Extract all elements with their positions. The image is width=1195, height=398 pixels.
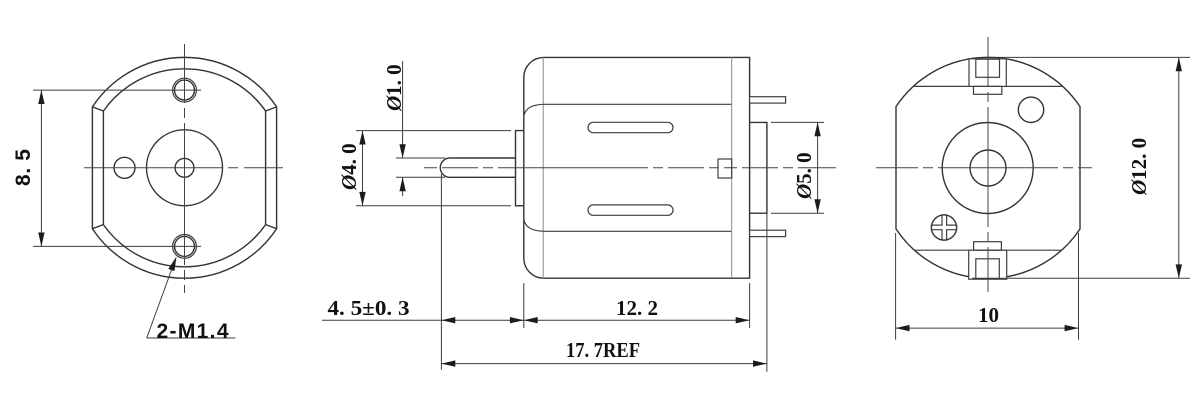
arrow 10 right	[1065, 325, 1079, 331]
arrow down 8.5	[38, 233, 44, 247]
screw head circle	[931, 215, 956, 240]
dim line 10	[896, 327, 1079, 329]
svg-text:10: 10	[978, 303, 999, 327]
arrow phi5.0 up	[814, 122, 820, 136]
inner shell top line	[524, 104, 732, 116]
inner shell bottom line	[524, 219, 732, 231]
vertical centerline	[184, 44, 186, 293]
chamfer edge top-left	[92, 107, 103, 111]
rear bearing circle	[970, 150, 1006, 186]
rear boss circle	[942, 123, 1033, 214]
extension line bottom hole	[33, 245, 201, 247]
arrow 4.5 left	[441, 317, 455, 323]
top terminal	[750, 97, 786, 103]
ext line shaft top	[396, 157, 445, 159]
bottom vent slot	[588, 205, 673, 215]
ext line endcap phi5 top	[771, 121, 824, 123]
dim line phi1.0 lower	[402, 177, 404, 196]
ext line boss bottom	[356, 205, 511, 207]
ext line endcap phi5 bottom	[771, 212, 824, 214]
arrow phi12 down	[1176, 264, 1182, 278]
chamfer edge bottom-right	[266, 225, 277, 229]
bottom tab inner	[976, 259, 1000, 279]
dim line phi12.0	[1178, 57, 1180, 278]
arrow 17.7 right	[753, 360, 767, 366]
svg-text:Ø5. 0: Ø5. 0	[792, 152, 816, 200]
svg-text:12. 2: 12. 2	[616, 296, 658, 320]
dimension line 8.5	[40, 90, 42, 246]
bearing boss	[516, 131, 524, 206]
bottom screw hole M1.4 thread	[173, 235, 197, 259]
front view outer can outline	[92, 57, 276, 278]
top vent slot	[588, 122, 673, 132]
inner back line	[731, 57, 733, 278]
svg-text:Ø4. 0: Ø4. 0	[337, 143, 361, 191]
oil hole tab	[718, 159, 732, 178]
horizontal centerline	[876, 167, 1092, 169]
arrow phi12 up	[1176, 57, 1182, 71]
ext line boss top	[356, 130, 511, 132]
crimp chord top	[913, 85, 1062, 87]
svg-text:Ø12. 0: Ø12. 0	[1127, 138, 1151, 196]
top tab bump	[974, 86, 1002, 94]
bottom screw hole M1.4 inner	[175, 236, 195, 256]
ext line 10 right	[1078, 233, 1080, 340]
bottom tab bump	[974, 242, 1002, 251]
rear endcap	[750, 122, 767, 213]
back view outer can outline	[896, 57, 1080, 278]
screw cross slot	[931, 215, 956, 240]
top screw hole M1.4 thread	[173, 78, 197, 102]
bottom tab outer	[969, 250, 1007, 279]
arrow 4.5 right	[510, 317, 524, 323]
ext line phi12 top	[993, 56, 1190, 58]
svg-text:8. 5: 8. 5	[12, 149, 35, 186]
vertical centerline	[987, 37, 989, 292]
shaft hole	[175, 158, 194, 177]
ext line phi12 bottom	[972, 277, 1190, 279]
front view inner rim outline	[103, 69, 265, 267]
dim line 4.5	[322, 319, 524, 321]
svg-text:Ø1. 0: Ø1. 0	[382, 64, 406, 112]
arrow 17.7 left	[441, 360, 455, 366]
arrow up 8.5	[38, 90, 44, 104]
arrow 12.2 left	[524, 317, 538, 323]
svg-text:4. 5±0. 3: 4. 5±0. 3	[328, 296, 410, 320]
arrow 12.2 right	[736, 317, 750, 323]
ext line 10 left	[895, 233, 897, 340]
arrow phi1.0 up	[399, 177, 405, 191]
vent hole top right	[1018, 97, 1043, 122]
ext line endcap back	[766, 213, 768, 372]
extension line top hole	[33, 89, 201, 91]
motor body outline	[524, 57, 750, 278]
arrow 10 left	[896, 325, 910, 331]
top screw hole M1.4 inner	[175, 80, 195, 100]
arrow phi4.0 up	[359, 131, 365, 145]
arrow phi5.0 down	[814, 199, 820, 213]
arrow phi1.0 down	[399, 144, 405, 158]
center boss circle	[147, 130, 223, 206]
ext line body back	[749, 283, 751, 328]
top tab inner	[976, 59, 1000, 77]
chamfer edge bottom-left	[92, 225, 103, 229]
arrow phi4.0 down	[359, 192, 365, 206]
dim line 17.7REF	[441, 363, 767, 365]
dim line phi4.0	[362, 131, 364, 206]
ext line shaft tip	[440, 174, 442, 370]
horizontal centerline	[84, 167, 283, 169]
chamfer edge top-right	[266, 107, 277, 111]
dim line phi5.0	[817, 122, 819, 213]
horizontal centerline	[424, 167, 836, 169]
leader arrow	[168, 257, 176, 272]
ext line body front	[523, 283, 525, 328]
ext line shaft bottom	[396, 176, 445, 178]
dim line 12.2	[524, 319, 750, 321]
front cap edge line	[542, 57, 544, 278]
leader line 2-M1.4	[147, 265, 174, 339]
bottom terminal	[750, 230, 786, 236]
leader shoulder	[147, 337, 236, 339]
dim line phi1.0 upper	[402, 61, 404, 158]
svg-text:2-M1.4: 2-M1.4	[157, 320, 229, 343]
top tab outer	[969, 59, 1006, 87]
shaft	[440, 158, 515, 177]
svg-text:17. 7REF: 17. 7REF	[566, 338, 640, 362]
small side hole	[114, 157, 135, 178]
crimp chord bottom	[914, 249, 1061, 251]
